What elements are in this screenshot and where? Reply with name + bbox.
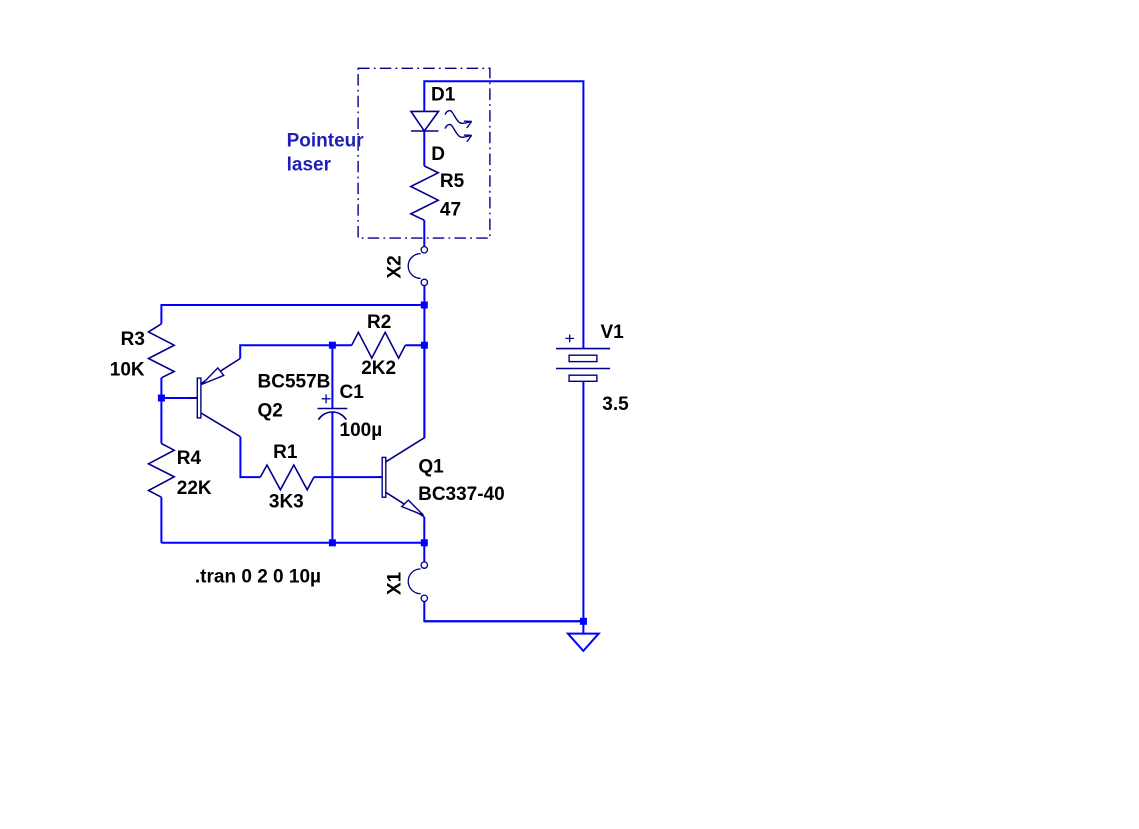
svg-text:3.5: 3.5	[602, 394, 629, 415]
svg-text:47: 47	[440, 200, 461, 221]
svg-text:Q1: Q1	[418, 457, 444, 478]
svg-text:Q2: Q2	[258, 401, 283, 422]
svg-text:100µ: 100µ	[340, 420, 383, 441]
svg-text:BC557B: BC557B	[258, 372, 331, 393]
svg-text:R4: R4	[177, 448, 202, 469]
svg-text:.tran 0 2 0 10µ: .tran 0 2 0 10µ	[195, 567, 321, 588]
svg-text:laser: laser	[287, 154, 332, 175]
svg-text:R2: R2	[367, 312, 391, 333]
svg-text:V1: V1	[601, 322, 625, 343]
svg-text:D: D	[431, 144, 445, 165]
svg-text:Pointeur: Pointeur	[287, 131, 365, 152]
svg-text:R1: R1	[273, 442, 298, 463]
svg-text:C1: C1	[340, 382, 365, 403]
svg-text:R5: R5	[440, 171, 465, 192]
svg-text:D1: D1	[431, 85, 456, 106]
svg-text:X1: X1	[385, 571, 406, 595]
svg-text:10K: 10K	[110, 360, 145, 381]
svg-text:BC337-40: BC337-40	[418, 484, 505, 505]
svg-text:X2: X2	[384, 255, 405, 278]
svg-text:R3: R3	[121, 329, 145, 350]
svg-text:22K: 22K	[177, 478, 212, 499]
svg-text:3K3: 3K3	[269, 492, 304, 513]
svg-text:2K2: 2K2	[361, 358, 396, 379]
